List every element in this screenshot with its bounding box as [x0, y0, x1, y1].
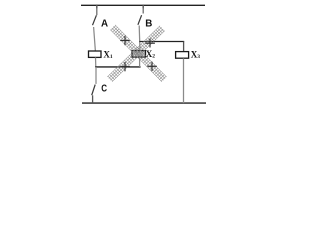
wire: switch B down to coil X2 (passes tee node) [138, 26, 141, 51]
deletion cross mark lower-left [120, 62, 130, 71]
deletion mark: hatched band (top-right to bottom-left stroke of X) [107, 26, 165, 82]
wire: coil X3 down to bottom bus [183, 58, 185, 103]
coil X3 [176, 52, 189, 59]
deletion cross mark upper-right [145, 39, 155, 48]
wire: corner down from horizontal wire to coil X3 [183, 42, 185, 52]
wire: coil X1 down to node at mid wire [95, 57, 97, 67]
coil X1 [89, 51, 102, 57]
wire: stub from top bus to switch B [142, 5, 144, 13]
node: junction of branch B on top bus [142, 5, 144, 9]
svg-text:C: C [101, 84, 107, 95]
deletion cross mark lower-right [147, 62, 157, 71]
switch A (normally-open contact blade) [93, 15, 97, 25]
wire: switch A down to coil X1 [94, 27, 96, 51]
wire: bottom supply bus [82, 102, 206, 104]
node: junction of branch A on top bus [96, 5, 98, 9]
wire: horizontal wire from branch A node to bottom of coil X2 [95, 66, 140, 68]
deletion mark: hatched band (top-left to bottom-right stroke of X) [110, 25, 167, 82]
wire: stub from top bus to switch A [96, 5, 98, 15]
deletion cross mark upper-left [120, 36, 130, 46]
coil X2 (deleted) [132, 51, 146, 58]
wire: coil X2 down to horizontal wire [139, 57, 141, 67]
wire: horizontal wire from branch B tee to branch X3 [139, 41, 184, 43]
wire: top supply bus [81, 4, 205, 6]
wire: switch C to bottom bus [92, 95, 94, 103]
wire: node down to switch C [95, 67, 97, 84]
switch B (normally-open contact blade) [138, 15, 142, 25]
svg-text:B: B [145, 19, 152, 30]
svg-text:A: A [101, 18, 108, 29]
switch C (normally-open contact blade) [92, 85, 96, 96]
